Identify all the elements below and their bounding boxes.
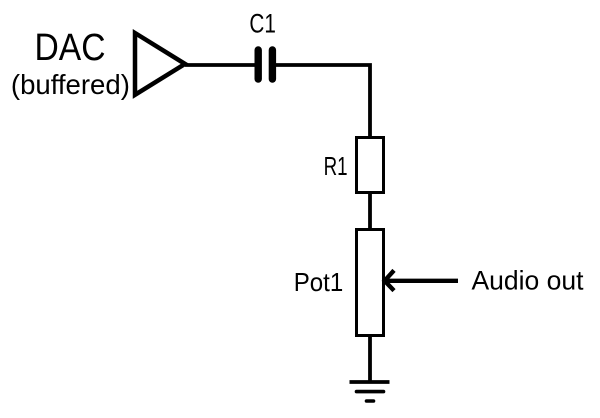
svg-text:Audio out: Audio out: [472, 265, 585, 295]
svg-text:DAC: DAC: [35, 26, 106, 68]
resistor R1: [357, 138, 384, 193]
capacitor C1: [258, 50, 272, 79]
wire buffer output to C1: [185, 63, 255, 67]
wire Pot1 to ground: [368, 335, 372, 382]
wire C1 to corner to R1: [276, 65, 370, 138]
svg-text:Pot1: Pot1: [294, 267, 344, 297]
wire R1 to Pot1: [368, 192, 372, 230]
svg-text:R1: R1: [324, 153, 348, 181]
wiper arrow shaft (Audio out tap): [386, 279, 459, 283]
wiper arrowhead: [385, 270, 394, 290]
potentiometer Pot1: [357, 230, 384, 336]
buffer U1 (DAC output buffer triangle): [135, 33, 185, 95]
svg-text:C1: C1: [249, 9, 276, 39]
svg-text:(buffered): (buffered): [11, 69, 130, 100]
ground symbol: [350, 382, 390, 401]
